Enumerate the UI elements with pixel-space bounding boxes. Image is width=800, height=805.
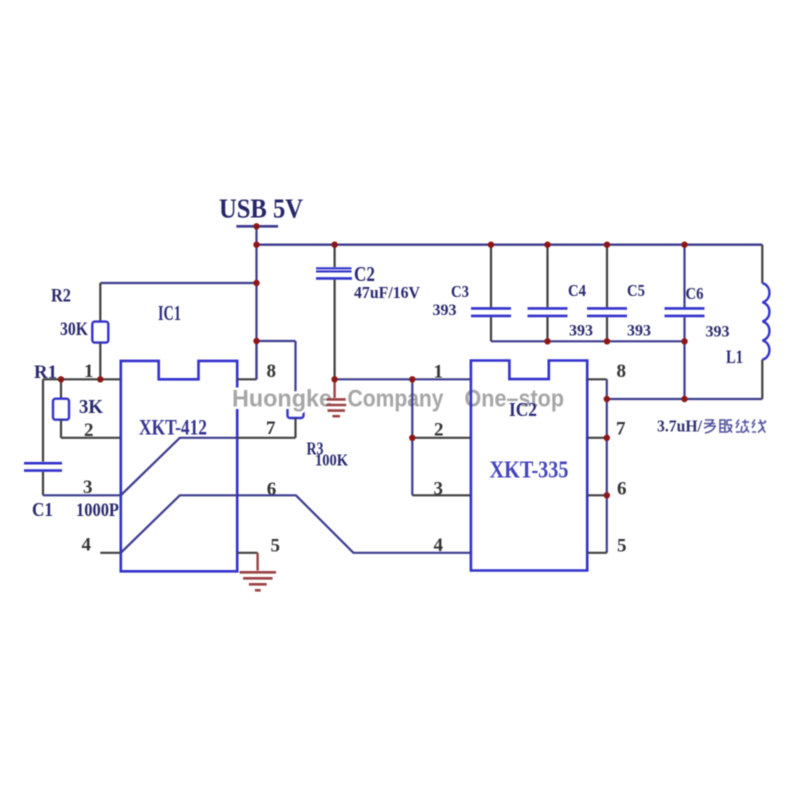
svg-text:393: 393: [627, 323, 651, 340]
svg-text:47uF/16V: 47uF/16V: [354, 283, 421, 302]
svg-text:393: 393: [706, 324, 730, 341]
svg-text:7: 7: [266, 418, 276, 439]
wire IC1 pin2 net: [61, 437, 121, 439]
wire IC2 right pin bus: [606, 379, 608, 553]
svg-text:6: 6: [617, 479, 627, 500]
svg-text:5: 5: [271, 536, 281, 557]
wire R2 top branch: [100, 282, 256, 284]
svg-text:L1: L1: [726, 347, 743, 368]
svg-text:Company: Company: [348, 385, 444, 412]
capacitor C5: [606, 245, 608, 308]
svg-text:100K: 100K: [315, 451, 349, 470]
svg-text:1: 1: [434, 362, 444, 383]
svg-text:R2: R2: [51, 286, 71, 307]
svg-text:3: 3: [434, 479, 444, 500]
wire capacitor bottom bus: [491, 340, 685, 342]
svg-text:Huongke: Huongke: [232, 385, 332, 412]
wire C1 lower lead: [42, 472, 44, 495]
svg-text:2: 2: [84, 420, 94, 441]
resistor R2: [92, 322, 108, 343]
ground at C2: [333, 379, 335, 398]
svg-text:XKT-335: XKT-335: [490, 458, 569, 484]
svg-text:3: 3: [83, 477, 93, 498]
wire left branch down to C1: [42, 379, 44, 461]
USB 5V terminal bar: [236, 225, 278, 228]
wire IC2 pin3 stub: [412, 494, 471, 496]
IC1 internal ramp pin4 to pin6: [121, 495, 237, 553]
svg-text:5: 5: [617, 536, 627, 557]
svg-text:393: 393: [569, 323, 593, 340]
svg-text:4: 4: [82, 535, 92, 556]
wire IC1 pin3 net: [43, 494, 121, 496]
svg-text:C4: C4: [568, 281, 586, 300]
wire IC1 pin4 stub: [100, 552, 121, 554]
svg-text:IC2: IC2: [509, 399, 537, 421]
svg-text:30K: 30K: [60, 319, 88, 340]
junction dots: [253, 223, 259, 229]
wire C2 lower lead: [334, 280, 336, 380]
wire R3 to IC1 pin7: [237, 437, 295, 439]
wire R2 lower lead: [99, 343, 101, 380]
wire R2 upper lead: [99, 283, 101, 322]
svg-text:C1: C1: [32, 499, 53, 521]
inductor L1: [761, 245, 763, 284]
wire R3 branch from rail: [257, 340, 296, 342]
svg-text:6: 6: [267, 479, 277, 500]
svg-text:8: 8: [617, 361, 627, 382]
wire R3 lower lead: [294, 418, 296, 438]
wire IC2 pin8 stub: [587, 378, 607, 380]
capacitor C1: [24, 462, 62, 465]
op-amp U IC2 body XKT-335: [471, 361, 587, 571]
svg-text:1: 1: [84, 361, 94, 382]
wire R3 upper lead: [294, 341, 296, 397]
resistor R3: [288, 397, 304, 418]
svg-text:C6: C6: [686, 284, 704, 303]
wire IC1 pin6 to IC2 pin4: [237, 495, 471, 553]
capacitor C6: [683, 245, 685, 308]
wire C2 upper lead: [334, 245, 336, 267]
wire C2 node to IC2 pin1: [335, 378, 471, 380]
svg-text:C3: C3: [451, 282, 469, 301]
wire L1 return line: [607, 398, 763, 400]
svg-text:XKT-412: XKT-412: [139, 415, 207, 440]
wire IC1 pin5 stub: [237, 552, 257, 554]
IC1 internal ramp pin3 to pin7: [121, 438, 237, 496]
svg-text:8: 8: [267, 361, 277, 382]
svg-text:3K: 3K: [79, 396, 103, 418]
resistor R1: [53, 399, 69, 420]
wire IC2 pin5 stub: [587, 552, 607, 554]
svg-text:7: 7: [616, 419, 626, 440]
svg-text:3.7uH/: 3.7uH/: [657, 417, 702, 436]
wire R1 lower lead: [60, 420, 62, 438]
svg-text:IC1: IC1: [158, 301, 181, 325]
wire IC2 pins 1-2-3 tie vertical: [411, 379, 413, 495]
wire USB vertical drop: [255, 226, 257, 379]
svg-text:1000P: 1000P: [76, 500, 119, 521]
capacitor C3: [490, 245, 492, 308]
capacitor C2: [316, 267, 352, 269]
svg-text:4: 4: [434, 535, 444, 556]
wire IC1 pin8 stub: [237, 378, 256, 380]
svg-text:R1: R1: [34, 362, 57, 383]
wire IC2 pin2 stub: [412, 437, 471, 439]
svg-text:C5: C5: [627, 281, 645, 300]
svg-text:2: 2: [434, 420, 444, 441]
ground at IC1 pin5: [240, 571, 276, 574]
svg-text:393: 393: [433, 302, 457, 319]
svg-text:USB 5V: USB 5V: [219, 193, 303, 224]
wire IC2 pin7 stub: [587, 437, 607, 439]
capacitor C4: [546, 245, 548, 308]
op-amp U IC1 body XKT-412: [121, 361, 237, 571]
wire IC2 pin6 stub: [587, 494, 607, 496]
wire 5V power rail: [257, 243, 763, 245]
wire IC1 pin1 net: [43, 378, 121, 380]
wire R1 upper lead: [60, 379, 62, 398]
